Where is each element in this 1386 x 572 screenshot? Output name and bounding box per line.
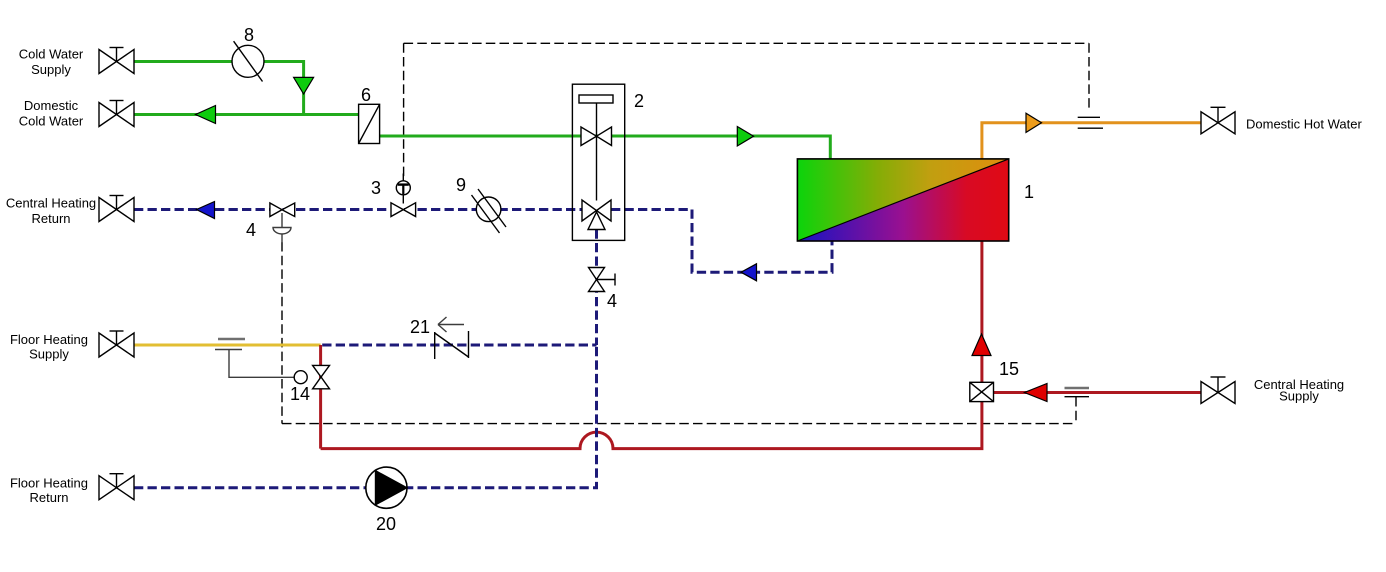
- wire: red pipe bottom run with bridge: [321, 241, 982, 449]
- valve: unit 2 upper valve on green pipe: [581, 127, 612, 146]
- svg-text:Floor Heating: Floor Heating: [10, 332, 88, 347]
- svg-text:4: 4: [607, 291, 617, 311]
- valve: domestic hot water shutoff: [1201, 107, 1235, 134]
- svg-text:Floor Heating: Floor Heating: [10, 476, 88, 491]
- svg-text:9: 9: [456, 175, 466, 195]
- svg-text:Supply: Supply: [1279, 389, 1319, 404]
- wire: floor heating supply blue dashed pipe: [322, 344, 596, 347]
- svg-text:15: 15: [999, 359, 1019, 379]
- control dashed vertical CHS sensor: [1075, 397, 1077, 424]
- arrow: red up arrow to heat exchanger: [972, 334, 991, 356]
- heat exchanger 1: [797, 159, 1008, 241]
- control dashed vertical from valve 4 bell: [281, 242, 283, 424]
- svg-text:Domestic Hot Water: Domestic Hot Water: [1246, 117, 1362, 132]
- wire: blue dashed pipe 3-way valve down: [595, 230, 598, 346]
- svg-text:Domestic: Domestic: [24, 98, 79, 113]
- junction 15 mixing point: [970, 382, 994, 401]
- control dashed line bottom: [282, 423, 1076, 425]
- wire: blue dashed pipe heat exchanger to 3-way valve: [611, 210, 832, 273]
- svg-text:Supply: Supply: [29, 347, 69, 362]
- wire: floor heating return blue dashed pipe: [134, 345, 597, 488]
- water meter 8: [232, 41, 264, 81]
- control dashed line top: [404, 42, 1089, 44]
- arrow: blue left arrow central heating return: [197, 202, 215, 219]
- control dashed line right vertical to DHW sensor: [1088, 43, 1090, 111]
- arrow: green right arrow to heat exchanger: [737, 127, 753, 147]
- wire: domestic hot water orange pipe: [982, 123, 1201, 159]
- arrow: green left arrow domestic cold water: [196, 106, 216, 124]
- svg-text:Cold Water: Cold Water: [19, 47, 84, 62]
- valve 3 motorized: [391, 174, 416, 217]
- arrow: red left arrow central heating supply: [1025, 384, 1048, 402]
- wire: domestic cold water green pipe: [134, 113, 359, 116]
- svg-text:20: 20: [376, 514, 396, 534]
- valve 4 differential pressure controller: [270, 203, 295, 217]
- valve: domestic cold water shutoff: [99, 101, 134, 127]
- valve 14 thermostatic: [294, 365, 329, 388]
- svg-text:4: 4: [246, 220, 256, 240]
- svg-text:6: 6: [361, 85, 371, 105]
- valve: central heating return shutoff: [99, 196, 134, 222]
- pump 20: [366, 467, 407, 508]
- svg-text:14: 14: [290, 384, 310, 404]
- wire: central heating return blue dashed pipe: [134, 208, 582, 211]
- svg-text:2: 2: [634, 91, 644, 111]
- svg-text:21: 21: [410, 317, 430, 337]
- arrow: green down arrow: [294, 77, 314, 94]
- svg-text:Return: Return: [29, 490, 68, 505]
- wire: red pipe valve 14 riser: [319, 345, 322, 449]
- sensor: domestic hot water temperature: [1078, 117, 1103, 128]
- svg-text:Cold Water: Cold Water: [19, 114, 84, 129]
- arrow: orange right arrow domestic hot water: [1026, 113, 1042, 132]
- sensor: floor heating supply temperature: [215, 339, 294, 377]
- svg-text:1: 1: [1024, 182, 1034, 202]
- valve 4 drain below unit 2: [589, 268, 616, 292]
- wire: floor heating supply gold pipe: [134, 344, 321, 347]
- sensor 9 flow: [472, 189, 507, 233]
- arrow: blue left arrow heat exchanger return: [741, 264, 757, 281]
- wire: central heating supply red pipe: [994, 391, 1202, 394]
- valve: cold water supply shutoff: [99, 48, 134, 74]
- sensor: central heating supply temperature: [1065, 388, 1090, 397]
- svg-text:Supply: Supply: [31, 62, 71, 77]
- valve: floor heating return shutoff: [99, 474, 134, 500]
- valve: unit 2 lower 3-way valve: [582, 200, 611, 230]
- check valve 21: [435, 331, 469, 359]
- control dashed line left vertical to valve 3: [403, 43, 405, 179]
- control unit 2 box: [572, 84, 624, 240]
- wire: green pipe filter to heat exchanger: [380, 136, 831, 159]
- svg-text:3: 3: [371, 178, 381, 198]
- valve: central heating supply shutoff: [1201, 377, 1235, 404]
- wire: cold water supply green pipe: [134, 62, 304, 115]
- svg-text:8: 8: [244, 25, 254, 45]
- svg-text:Return: Return: [31, 211, 70, 226]
- filter 6: [359, 104, 380, 143]
- svg-text:Central Heating: Central Heating: [6, 196, 96, 211]
- valve: floor heating supply shutoff: [99, 331, 134, 357]
